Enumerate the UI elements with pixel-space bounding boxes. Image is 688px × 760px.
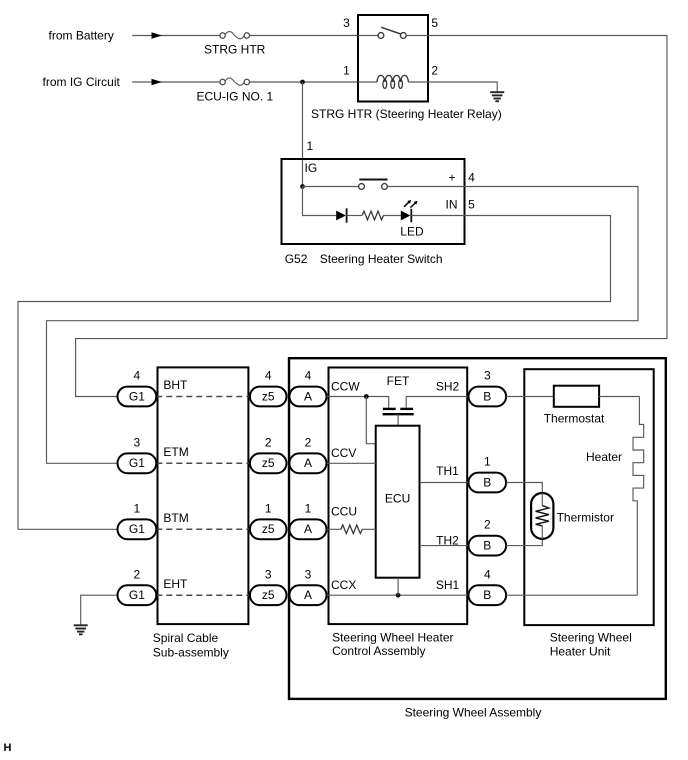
svg-text:2: 2 — [305, 435, 312, 449]
svg-text:Steering Wheel Heater: Steering Wheel Heater — [332, 631, 453, 645]
connector A pin 2 — [289, 435, 326, 473]
svg-text:B: B — [483, 475, 491, 489]
wire: LED branch — [303, 187, 337, 216]
connector G1 pin 3 (ETM) — [118, 435, 157, 473]
wire: switch pin 4 to ETM G1 — [47, 187, 639, 464]
wire SH2 — [406, 396, 468, 398]
svg-text:H: H — [4, 742, 12, 754]
Steering Wheel Heater Unit box — [524, 369, 653, 625]
svg-text:Thermistor: Thermistor — [557, 511, 614, 525]
svg-text:G52: G52 — [285, 252, 308, 266]
connector B pin 4 (SH1) — [469, 567, 507, 605]
FET Q1 — [383, 409, 414, 414]
resistor (CCU) — [341, 525, 363, 534]
connector z5 pin 1 — [250, 501, 287, 539]
wire: relay pin 2 to ground — [428, 82, 497, 92]
svg-text:1: 1 — [306, 139, 313, 153]
svg-text:5: 5 — [468, 197, 475, 211]
connector A pin 1 — [289, 501, 326, 539]
svg-text:SH2: SH2 — [436, 380, 460, 394]
dashed wire EHT — [156, 594, 250, 596]
Steering Wheel Heater Control Assembly box — [329, 368, 468, 625]
connector B pin 3 (SH2) — [469, 369, 507, 407]
svg-text:z5: z5 — [262, 588, 275, 602]
svg-text:CCU: CCU — [331, 505, 357, 519]
wire B2 to thermistor bottom — [506, 539, 542, 546]
svg-text:3: 3 — [305, 567, 312, 581]
svg-text:4: 4 — [265, 369, 272, 383]
svg-text:Sub-assembly: Sub-assembly — [153, 645, 229, 659]
fuse ECU-IG NO. 1 — [220, 78, 250, 85]
svg-text:A: A — [304, 588, 312, 602]
LED — [401, 200, 418, 222]
svg-text:ECU-IG NO. 1: ECU-IG NO. 1 — [197, 90, 274, 104]
svg-text:G1: G1 — [129, 389, 145, 403]
svg-text:+: + — [448, 170, 455, 184]
svg-text:BHT: BHT — [163, 378, 188, 392]
svg-text:Thermostat: Thermostat — [544, 411, 605, 425]
svg-text:3: 3 — [265, 567, 272, 581]
svg-text:4: 4 — [305, 369, 312, 383]
thermistor — [531, 493, 553, 539]
connector z5 pin 4 — [250, 369, 287, 407]
svg-text:3: 3 — [343, 16, 350, 30]
wire CCW branch to ECU — [366, 397, 375, 444]
wire CCW — [327, 397, 389, 408]
relay coil — [358, 75, 428, 88]
svg-text:2: 2 — [134, 567, 141, 581]
wire: battery feed with arrow — [132, 32, 358, 38]
FET drain lead to SH2 — [405, 397, 407, 408]
svg-text:IG: IG — [305, 161, 318, 175]
svg-text:B: B — [483, 538, 491, 552]
wire thermostat to heater — [599, 396, 639, 398]
svg-text:A: A — [304, 522, 312, 536]
svg-text:ETM: ETM — [163, 445, 188, 459]
svg-text:CCW: CCW — [331, 380, 360, 394]
svg-text:from Battery: from Battery — [49, 29, 114, 43]
wire: EHT G1 to ground — [81, 595, 118, 625]
svg-text:z5: z5 — [262, 389, 275, 403]
junction dot on IG wire — [300, 80, 305, 85]
svg-text:EHT: EHT — [163, 577, 188, 591]
svg-text:STRG HTR: STRG HTR — [204, 43, 266, 57]
connector B pin 2 (TH2) — [469, 518, 507, 556]
svg-text:BTM: BTM — [163, 511, 188, 525]
svg-text:from IG Circuit: from IG Circuit — [43, 75, 121, 89]
svg-text:A: A — [304, 456, 312, 470]
dashed wire BTM — [156, 528, 250, 530]
relay contact switch — [358, 27, 428, 38]
connector z5 pin 2 — [250, 435, 287, 473]
ECU box — [376, 426, 420, 578]
svg-text:CCX: CCX — [331, 578, 356, 592]
junction dot CCX — [396, 593, 401, 598]
svg-text:3: 3 — [134, 435, 141, 449]
FET gate lead to ECU — [397, 414, 399, 426]
svg-text:5: 5 — [431, 16, 438, 30]
connector A pin 4 — [289, 369, 326, 407]
junction dot CCW — [364, 394, 369, 399]
svg-text:G1: G1 — [129, 456, 145, 470]
svg-text:1: 1 — [305, 501, 312, 515]
svg-text:B: B — [483, 588, 491, 602]
connector G1 pin 4 (BHT) — [118, 369, 157, 407]
svg-text:Spiral Cable: Spiral Cable — [153, 631, 219, 645]
svg-text:STRG HTR (Steering Heater Rela: STRG HTR (Steering Heater Relay) — [311, 107, 502, 121]
svg-text:2: 2 — [431, 64, 438, 78]
svg-text:B: B — [483, 389, 491, 403]
ground symbol (relay) — [490, 92, 504, 101]
svg-text:Control Assembly: Control Assembly — [332, 644, 425, 658]
svg-text:4: 4 — [468, 170, 475, 184]
svg-text:3: 3 — [484, 369, 491, 383]
switch G52 box — [282, 159, 465, 244]
svg-text:1: 1 — [343, 64, 350, 78]
connector G1 pin 1 (BTM) — [118, 501, 157, 539]
svg-text:1: 1 — [134, 501, 141, 515]
wire — [347, 215, 362, 217]
fuse STRG HTR — [220, 32, 250, 39]
connector G1 pin 2 (EHT) — [118, 567, 157, 605]
svg-text:Steering Heater Switch: Steering Heater Switch — [320, 252, 443, 266]
wire CCU right — [362, 528, 376, 530]
svg-text:Steering Wheel Assembly: Steering Wheel Assembly — [405, 706, 542, 720]
svg-text:1: 1 — [484, 455, 491, 469]
wire TH1 — [420, 482, 469, 484]
svg-text:z5: z5 — [262, 456, 275, 470]
wire B3 to thermostat — [506, 396, 554, 398]
wire — [383, 215, 401, 217]
heater element — [633, 397, 644, 596]
wire B4 to heater bottom — [506, 594, 637, 596]
wire: switch pin 1 — [302, 82, 304, 187]
wire CCX — [327, 594, 469, 596]
wire B1 to thermistor top — [506, 483, 542, 494]
wire: IG feed with arrow — [132, 79, 358, 85]
svg-text:CCV: CCV — [331, 446, 356, 460]
ground symbol (EHT) — [74, 625, 88, 634]
svg-text:2: 2 — [484, 518, 491, 532]
wire TH2 — [420, 545, 469, 547]
svg-text:4: 4 — [484, 567, 491, 581]
dashed wire ETM — [156, 462, 250, 464]
wire: relay pin 5 to BHT G1 — [76, 36, 667, 397]
svg-text:IN: IN — [446, 197, 458, 211]
connector A pin 3 — [289, 567, 326, 605]
connector z5 pin 3 — [250, 567, 287, 605]
svg-text:G1: G1 — [129, 522, 145, 536]
junction dot pin1/switch row — [300, 184, 305, 189]
svg-text:TH1: TH1 — [436, 464, 459, 478]
thermostat — [554, 386, 599, 407]
Spiral Cable Sub-assembly box — [158, 367, 249, 624]
relay STRG HTR box — [358, 15, 428, 102]
svg-text:z5: z5 — [262, 522, 275, 536]
dashed wire BHT — [156, 396, 250, 398]
svg-text:2: 2 — [265, 435, 272, 449]
diode D1 — [336, 208, 346, 222]
wire CCV — [327, 462, 376, 464]
wire CCU left — [327, 528, 341, 530]
push switch — [303, 180, 465, 190]
svg-text:4: 4 — [134, 369, 141, 383]
resistor (switch) — [362, 211, 384, 220]
svg-text:TH2: TH2 — [436, 533, 459, 547]
svg-text:ECU: ECU — [385, 491, 410, 505]
svg-text:Heater Unit: Heater Unit — [550, 644, 611, 658]
svg-text:FET: FET — [387, 374, 410, 388]
svg-text:LED: LED — [400, 225, 424, 239]
svg-text:Steering Wheel: Steering Wheel — [550, 630, 632, 644]
svg-text:G1: G1 — [129, 588, 145, 602]
wire: switch pin 5 to BTM G1 — [18, 216, 611, 530]
svg-text:Heater: Heater — [586, 450, 622, 464]
svg-text:SH1: SH1 — [436, 578, 460, 592]
Steering Wheel Assembly box — [289, 358, 666, 699]
connector B pin 1 (TH1) — [469, 455, 507, 493]
wire ECU bottom to CCX — [397, 578, 399, 596]
svg-text:1: 1 — [265, 501, 272, 515]
svg-text:A: A — [304, 389, 312, 403]
